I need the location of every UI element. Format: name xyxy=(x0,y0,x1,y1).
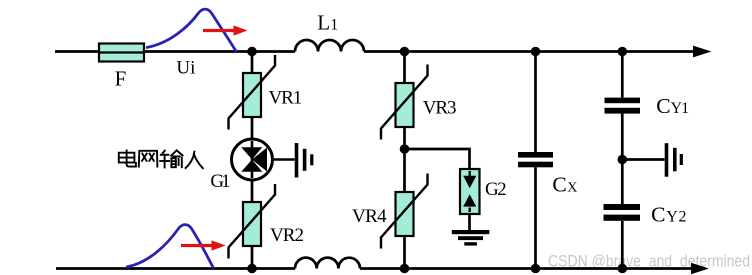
svg-text:C: C xyxy=(651,203,665,227)
svg-text:VR1: VR1 xyxy=(269,87,303,108)
svg-text:F: F xyxy=(115,67,127,91)
svg-text:C: C xyxy=(552,172,566,196)
svg-text:VR3: VR3 xyxy=(423,97,457,118)
svg-text:G1: G1 xyxy=(210,171,230,192)
svg-text:VR4: VR4 xyxy=(352,206,387,227)
svg-text:X: X xyxy=(567,180,577,195)
svg-text:C: C xyxy=(656,94,670,118)
svg-text:VR2: VR2 xyxy=(270,225,304,246)
svg-text:Ui: Ui xyxy=(176,57,195,78)
svg-text:Y2: Y2 xyxy=(666,209,686,226)
svg-text:L: L xyxy=(317,10,330,34)
svg-text:1: 1 xyxy=(330,16,338,33)
svg-text:G2: G2 xyxy=(485,179,507,200)
svg-text:Y1: Y1 xyxy=(671,100,690,117)
